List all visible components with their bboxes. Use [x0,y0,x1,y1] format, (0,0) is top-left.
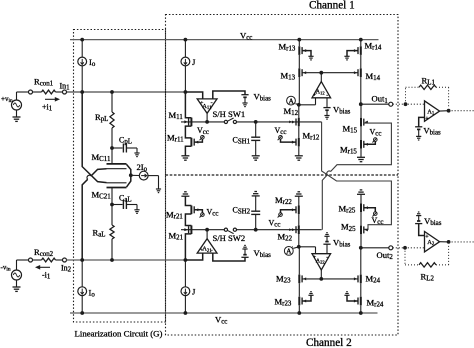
label Vbias A12 [333,105,351,116]
node load1 junction [404,102,408,106]
label Mr13 [279,42,296,53]
wire M23 M24 gate line [302,278,358,280]
label Io top [89,57,96,68]
transistor Mr25 [361,203,368,212]
label Channel 2 [306,337,352,348]
node Mr14 rail junction [359,38,363,42]
ground Mr23 gate [308,292,313,296]
resistor RaL [110,205,114,261]
label Mr21 [166,210,183,221]
wire In1 to A11 plus [185,92,202,99]
label In1 [60,82,71,92]
wire A11 output [206,113,208,122]
wire +vin to Rcon1 [17,91,29,93]
label Mr22 [275,195,292,206]
ground Mr15 [357,157,365,161]
battery Vbias A1 [415,127,422,137]
svg-text:+: + [313,93,316,99]
channel 1 and channel 2 dashed box [166,15,399,336]
wire node A line [295,104,315,105]
capacitor CSH2 [251,196,260,230]
wire M15 source to Mr15 [360,126,362,140]
ground Vbias A1 [416,136,421,140]
label Mr11 [167,133,184,144]
label Mr14 [365,41,382,52]
op-amp A21 [197,239,217,254]
label Vcc Mr15 [370,128,382,138]
wire Mr12 gate to Vcc tap [281,139,297,142]
wire M11 drain [185,92,191,118]
battery Vbias A2 [415,216,422,224]
terminal In2 [63,258,67,262]
node Out1 junction [359,102,363,106]
label Linearization Circuit (G) [75,329,163,339]
node In2-Io junction [80,258,84,262]
ground Mr13 gate [308,56,313,60]
label CSH2 [233,206,251,216]
label Mr25 [339,204,356,215]
label Vcc bottom [215,315,227,326]
node CSH2 junction [254,228,258,232]
wire A12 left input [315,98,317,105]
label RL1 [422,76,436,87]
node load2 junction [403,246,407,250]
label RL2 [421,272,435,283]
transistor Mr21 [191,206,198,215]
capacitor CaL [112,200,137,210]
terminal left Rcon1 [29,90,33,94]
wire node A prime line [293,247,315,249]
label Vbias A11 [254,92,272,103]
wire Out1 [361,103,389,105]
resistor RL1 feedback dashed [406,85,449,108]
wire M21 source to Mr21 [185,214,191,226]
label Mr15 [340,145,357,156]
label Out2 [377,250,394,261]
current source Io bottom [78,260,87,313]
label Vbias A22 [333,238,351,249]
ground Vbias A21 [242,245,247,249]
wire M12 source to Mr12 [298,126,300,138]
ground Vbias A22 [324,233,329,237]
ground Mr25 [357,190,365,194]
wire A22 output [320,270,322,279]
wire M14 to Out1 [360,77,362,104]
ground Vbias A2 [416,212,421,216]
wire Mr12 source to ground [298,146,300,155]
wire Out2 [361,247,389,249]
wire Mr21 source to ground [185,196,191,205]
transistor MC11 [107,164,127,169]
ground Mr11 [181,156,189,160]
node A prime [284,246,293,256]
node A21 output junction [205,228,209,232]
resistor Rcon1 [32,90,62,94]
vcc tap Mr12 [278,136,283,141]
wire M11 source to Mr11 [185,126,191,138]
node In1-J junction [184,90,188,94]
label S/H SW1 [213,109,246,119]
svg-text:′: ′ [292,246,293,252]
svg-text:-: - [211,246,213,253]
svg-text:A: A [289,96,295,105]
wire cross A-path M15 gate to SW2 [322,123,391,230]
label M22 [278,232,293,243]
channel divider dashed line [166,174,399,176]
transistor M12 [292,118,299,127]
ground CpL [134,153,139,157]
label Vcc Mr11 [197,126,209,136]
ground Mr22 [295,192,303,196]
wire Mr11 source to ground [185,146,191,156]
op-amp A2 [425,232,440,252]
transistor Mr15 [361,140,368,149]
wire A12 right input to Vbias [326,98,328,108]
switch S/H SW2 [224,228,236,234]
transistor Mr13 [299,46,306,55]
wire Out1 dotted to A1 [393,103,425,105]
label M13 [281,71,296,82]
wire A22 left input [315,247,317,254]
wire M21 drain [185,234,191,260]
wire In2 line [66,259,185,261]
label S/H SW2 [213,233,246,243]
ground CSH1 [252,156,260,160]
node CSH1 junction [254,120,258,124]
node A22 output junction [319,277,323,281]
vcc tap Mr11 [200,136,205,141]
ground CSH2 [252,192,260,196]
wire A21 minus to Vbias [213,253,245,261]
label M15 [343,124,358,135]
battery Vbias A11 [241,95,248,103]
ground Mr24 gate [344,292,349,296]
node A [287,96,296,105]
wire A21 output [206,230,208,239]
wire M13 M14 gate line [302,72,358,74]
node Out2 junction [359,246,363,250]
node Mr13 rail junction [297,38,301,42]
svg-text:A12: A12 [316,90,325,96]
label M12 [284,106,299,117]
svg-text:-: - [211,99,213,106]
wire Mr22 source to ground [298,196,300,205]
label Vbias A1 [423,126,441,137]
ground Mr12 [295,156,303,160]
svg-text:A22: A22 [316,259,325,265]
node Io-rail junction [80,38,84,42]
label M25 [341,222,356,233]
label MC11 [92,152,111,163]
wire MC11 source to tail [127,164,131,175]
resistor RpL [110,92,114,148]
wire A1 plus to Vbias [419,117,425,126]
transistor M14 [354,68,361,77]
label Rcon2 [34,247,54,258]
ground CaL [134,210,139,214]
node Mr24 rail junction [359,311,363,315]
label Mr23 [275,297,292,308]
transistor M13 [299,68,306,77]
ground Mr14 gate [344,56,349,60]
wire Mr14 gate to ground [347,51,358,57]
wire A2 plus to Vbias [419,224,425,236]
node In1-RpL junction [110,90,114,94]
node In2-J junction [184,258,188,262]
ground Mr21 [181,192,189,196]
label Mr24 [367,298,384,309]
battery Vbias A22 [323,236,330,244]
wire In2 to A21 plus [185,253,202,260]
label J top [192,57,196,67]
svg-text:Channel 2: Channel 2 [306,337,352,348]
terminal In1 [63,90,67,94]
battery Vbias A21 [241,249,248,257]
wire SW1 to M12 gate [237,121,322,124]
transistor Mr12 [292,138,299,147]
current source J top [181,40,190,92]
label J bottom [192,287,196,297]
wire Mr23 column [298,305,300,313]
label CpL [119,136,132,146]
wire M22 column [298,234,300,247]
wire Out2 dotted to A2 [393,247,425,249]
wire Mr21 gate to Vcc tap [194,210,202,213]
source -vin [12,260,22,287]
node In2-RaL junction [110,258,114,262]
wire SW2 to M22 gate [237,228,322,231]
vcc tap Mr15 [372,138,377,143]
op-amp A12 [312,82,331,99]
node tail junction [129,173,133,177]
svg-text:+: + [200,100,203,106]
wire M24 to Out2 [360,248,362,275]
label M11 [169,110,184,121]
label CaL [119,194,132,204]
transistor M22 [292,225,299,234]
wire Mr23 to M23 [298,283,300,297]
source +vin [12,92,22,117]
ground Vbias A12 [324,116,329,120]
wire Mr24 column [360,305,362,313]
node A junction [297,103,301,107]
capacitor CSH1 [251,122,260,156]
bottom Vcc rail [70,312,378,314]
svg-text:-: - [326,255,328,261]
label 2Io [137,162,148,173]
label Vcc top [240,31,252,42]
node Mr23 rail junction [297,311,301,315]
label Rcon1 [34,77,54,88]
arrow -i1 [35,265,50,270]
wire In1 line [66,91,185,93]
wire Mr24 gate to ground [347,295,358,301]
wire M25 drain [360,234,362,248]
transistor M23 [299,275,306,284]
label Vcc Mr22 [269,219,281,229]
label MC21 [92,190,112,201]
label Vcc Mr21 [207,208,219,218]
label RpL [95,112,108,123]
transistor M24 [354,275,361,284]
arrow +i1 [45,97,60,102]
label M14 [366,71,381,82]
wire Mr13 gate to ground [302,51,311,57]
transistor MC21 [107,183,127,188]
switch S/H SW1 [224,118,236,124]
node A11 output junction [205,120,209,124]
label Vbias A21 [254,248,272,259]
wire cross B-path SW1 to M25 gate [322,122,392,229]
label In2 [61,264,72,274]
resistor RL2 feedback dashed [405,245,449,268]
vcc tap Mr25 [372,212,377,217]
wire cross-couple In2 to MC11 gate with hop [82,169,106,260]
wire A2 output dotted [440,241,474,243]
wire M11 gate line [181,121,224,124]
top Vcc rail [70,39,379,41]
wire A12 output [320,73,322,82]
label -vin [1,264,11,273]
node In1-Io junction [80,90,84,94]
wire RpL to MC11 [111,148,113,164]
transistor M11 [185,118,192,127]
wire A11 minus to Vbias [213,91,245,99]
transistor M15 [361,118,368,127]
wire Mr24 to M24 [360,283,362,297]
ground -vin [13,287,21,291]
linearization circuit dashed box [74,30,166,323]
wire Mr14 column [360,40,362,47]
svg-text:Linearization Circuit (G): Linearization Circuit (G) [75,329,163,339]
wire M12 column [298,105,300,118]
svg-text:+: + [313,255,316,261]
node A12 output junction [319,71,323,75]
label Vcc Mr25 [372,216,384,226]
op-amp A1 [425,101,440,122]
svg-text:-: - [326,93,328,99]
node A1 output [447,109,451,113]
node A prime junction [297,245,301,249]
node J-rail junction [184,38,188,42]
label +i1 [42,103,53,113]
wire M13 to node A [298,77,300,105]
svg-text:S/H SW1: S/H SW1 [213,109,246,119]
wire -vin to Rcon2 [17,259,29,261]
node J bottom rail junction [184,311,188,315]
wire cross-couple In1 to MC21 gate [82,92,106,183]
svg-text:+: + [200,247,203,253]
label M21 [169,231,184,242]
wire M22 source to Mr22 [298,214,300,225]
svg-text:S/H SW2: S/H SW2 [213,233,246,243]
label Mr12 [303,131,320,142]
terminal Out2 [389,246,393,250]
wire Mr11 gate to Vcc tap [194,139,202,142]
ground 2Io [156,189,161,193]
label M23 [276,274,291,285]
ground Vbias A11 [242,103,247,107]
current source 2Io [131,171,159,189]
wire Mr13 column [298,40,300,47]
label M24 [366,274,381,285]
capacitor CpL [112,144,137,154]
wire Mr23 gate to ground [302,295,311,301]
transistor Mr24 [354,297,361,306]
wire Mr13 to M13 [298,55,300,69]
label Io bottom [89,288,96,299]
svg-text:Channel 1: Channel 1 [309,0,355,12]
wire Mr22 gate to Vcc tap [281,210,297,213]
label Vbias A2 [424,216,442,227]
label Vcc Mr12 [275,126,287,136]
label Channel 1 [309,0,355,12]
terminal Out1 [389,102,393,106]
transistor Mr11 [191,138,198,147]
wire MC21 source to tail [127,175,131,187]
wire M21 gate line [181,228,224,231]
wire Mr25 gate to Vcc tap [364,208,376,212]
wire MC21 drain to CaL [111,188,113,205]
wire Mr15 gate to Vcc tap [364,141,376,144]
wire M15 drain [360,104,362,118]
wire M25 source to Mr25 [360,212,362,226]
wire A22 right input to Vbias [326,244,328,254]
transistor M21 [185,225,192,234]
vcc tap Mr21 [200,213,205,218]
op-amp A11 [197,99,217,113]
label CSH1 [233,136,251,146]
node CpL junction [110,146,114,150]
label Out1 [372,94,389,105]
op-amp A22 [312,254,331,270]
wire Mr14 to M14 [360,55,362,69]
wire M23 to node A prime [298,247,300,275]
label RaL [93,228,106,239]
node Io bottom rail junction [80,311,84,315]
current source Io top [78,40,87,92]
terminal left Rcon2 [29,258,33,262]
resistor Rcon2 [32,258,62,262]
battery Vbias A12 [323,108,330,116]
transistor Mr14 [354,46,361,55]
label -i1 [42,271,51,281]
label +vin [1,95,13,104]
transistor Mr22 [292,206,299,215]
node A2 output [447,240,451,244]
vcc tap Mr22 [278,213,283,218]
wire Mr25 source to ground [360,194,362,203]
current source J bottom [181,260,190,313]
transistor Mr23 [299,297,306,306]
transistor M25 [361,226,368,235]
ground +vin [13,117,21,121]
wire A1 output dotted [440,110,474,112]
node CaL junction [110,203,114,207]
wire Mr15 source to ground [360,149,362,158]
